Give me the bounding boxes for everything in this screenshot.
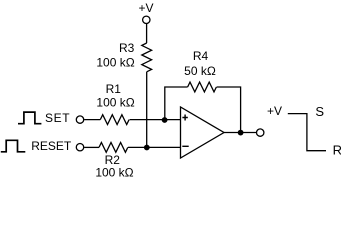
svg-text:R4: R4	[193, 49, 209, 63]
wire from +V terminal to R3	[146, 24, 148, 43]
svg-text:RESET: RESET	[31, 139, 72, 153]
SET pulse symbol	[18, 112, 41, 124]
svg-text:50 kΩ: 50 kΩ	[184, 64, 216, 78]
resistor R4 (horizontal zigzag)	[188, 82, 217, 92]
feedback wire right vertical (R4 to output)	[217, 87, 241, 133]
junction dot node A (feedback to + input)	[162, 117, 168, 123]
resistor R3 (vertical zigzag)	[142, 43, 152, 72]
power terminal +V circle	[143, 16, 150, 23]
svg-text:+V: +V	[139, 1, 154, 15]
feedback wire left vertical (node to R4)	[165, 87, 188, 120]
svg-text:R: R	[333, 142, 341, 157]
wire R3 bottom to inverting-input wire	[146, 72, 148, 148]
wire R1 to op-amp non-inverting input	[130, 119, 181, 121]
svg-text:+V: +V	[267, 104, 282, 118]
svg-text:100 kΩ: 100 kΩ	[96, 96, 134, 110]
op-amp minus input marker	[182, 145, 188, 147]
svg-text:R3: R3	[119, 41, 135, 55]
output terminal circle	[257, 129, 264, 136]
junction dot node B (R3 to - input)	[144, 145, 150, 151]
junction dot node C (output)	[238, 130, 244, 136]
op-amp U1 triangle	[181, 107, 225, 158]
wire SET terminal to R1	[84, 119, 100, 121]
svg-text:S: S	[315, 104, 324, 119]
svg-text:SET: SET	[45, 111, 70, 125]
op-amp output wire	[224, 132, 256, 134]
RESET input terminal circle	[76, 144, 83, 151]
wire R2 to op-amp inverting input	[128, 146, 181, 148]
svg-text:R1: R1	[106, 82, 122, 96]
output step waveform line	[288, 114, 326, 151]
resistor R1 (horizontal zigzag)	[100, 115, 129, 125]
resistor R2 (horizontal zigzag)	[99, 143, 128, 153]
svg-text:100 kΩ: 100 kΩ	[95, 165, 133, 179]
RESET pulse symbol	[1, 140, 26, 152]
op-amp plus input marker	[182, 115, 187, 121]
wire RESET terminal to R2	[84, 146, 99, 148]
SET input terminal circle	[76, 116, 83, 123]
svg-text:100 kΩ: 100 kΩ	[96, 55, 134, 69]
